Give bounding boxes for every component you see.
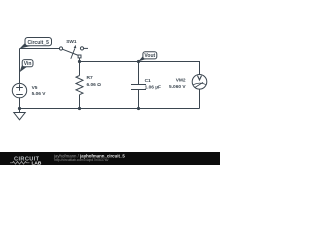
svg-text:1.06 µF: 1.06 µF xyxy=(145,84,161,90)
svg-text:SW1: SW1 xyxy=(66,39,77,45)
wire from node Circuit_5 down to V5 positive terminal xyxy=(19,49,21,84)
node junction R7 bottom rail xyxy=(78,107,81,110)
wire from SW1 common down to top rail junction xyxy=(79,58,81,62)
value label C1 1.06 uF xyxy=(145,78,161,90)
footer CircuitLab logo xyxy=(10,156,42,166)
net flag Vin xyxy=(20,60,34,73)
svg-text:5.060 V: 5.060 V xyxy=(169,84,186,90)
svg-text:http://circuitlab.com/c4qb47h0: http://circuitlab.com/c4qb47h0637t5/ xyxy=(54,158,109,162)
net flag Vout xyxy=(138,52,156,62)
svg-text:5.06 V: 5.06 V xyxy=(32,91,47,97)
resistor R7 xyxy=(76,62,83,109)
svg-text:Circuit_5: Circuit_5 xyxy=(27,40,49,46)
value label V5 5.06 V xyxy=(32,85,47,97)
svg-text:C1: C1 xyxy=(145,78,151,84)
footer credit text xyxy=(53,153,125,161)
wire from V5 negative terminal to bottom rail xyxy=(19,98,21,109)
node junction top of C1 xyxy=(137,60,140,63)
wire top rail to voltmeter xyxy=(80,62,200,75)
wire voltmeter bottom to bottom rail xyxy=(199,89,201,108)
value label VM2 5.060 V xyxy=(169,78,186,91)
node junction top of R7 xyxy=(78,60,81,63)
ground xyxy=(14,109,25,120)
svg-text:6.06 Ω: 6.06 Ω xyxy=(87,82,102,88)
svg-text:Vout: Vout xyxy=(144,53,155,59)
svg-text:Vin: Vin xyxy=(24,61,32,67)
net flag Circuit_5 xyxy=(20,38,52,49)
voltage source V5 xyxy=(12,83,26,97)
voltmeter VM2 xyxy=(192,75,207,90)
capacitor C1 xyxy=(131,62,146,109)
svg-text:LAB: LAB xyxy=(32,161,42,165)
value label R7 6.06 ohm xyxy=(87,75,102,88)
svg-text:VM2: VM2 xyxy=(176,78,186,84)
wire from node Circuit_5 to SW1 left throw xyxy=(20,48,60,50)
wire bottom rail xyxy=(20,108,200,110)
node junction at V5 bottom xyxy=(18,107,21,110)
footer bar xyxy=(0,152,220,165)
switch SW1 xyxy=(59,45,88,59)
svg-text:R7: R7 xyxy=(87,75,93,81)
node junction C1 bottom rail xyxy=(137,107,140,110)
svg-text:V5: V5 xyxy=(32,85,38,91)
